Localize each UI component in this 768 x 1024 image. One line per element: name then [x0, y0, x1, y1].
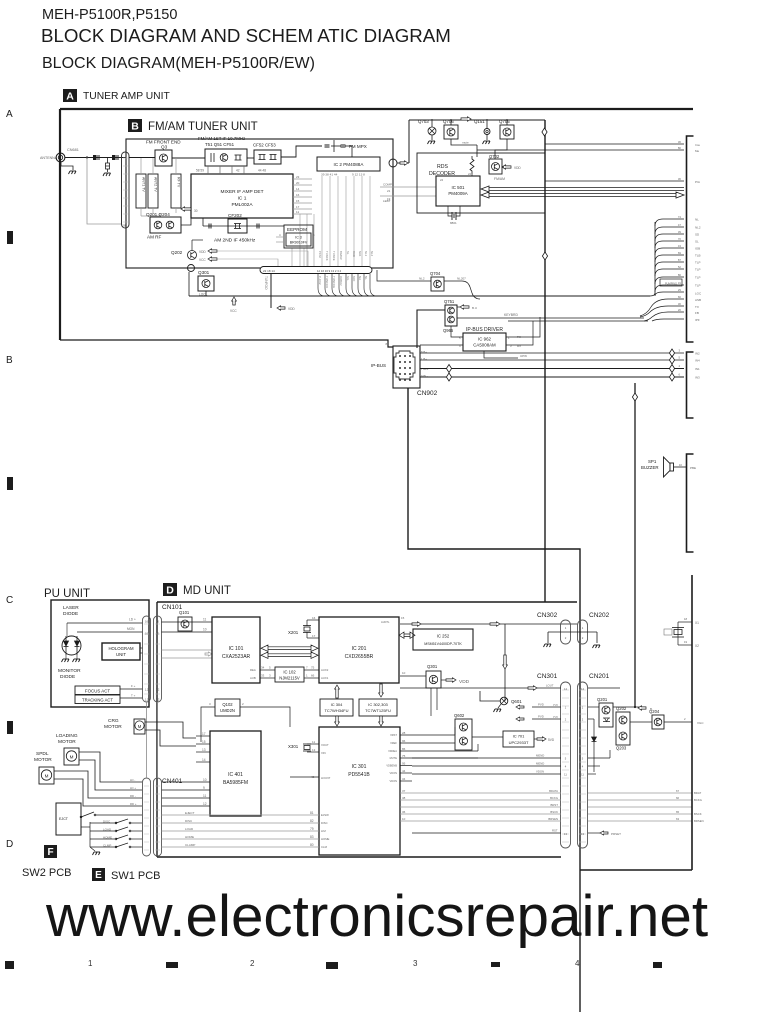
svg-text:MONITOR: MONITOR — [58, 668, 81, 674]
svg-text:IC 401: IC 401 — [228, 772, 243, 778]
svg-text:TRACKING ACT: TRACKING ACT — [82, 698, 113, 703]
tuner amp unit box bottom-left edge — [60, 340, 393, 347]
node junction antenna — [86, 156, 88, 158]
svg-text:29: 29 — [678, 288, 682, 292]
fan bundle vertical — [654, 222, 656, 295]
svg-text:96: 96 — [402, 739, 406, 743]
wire am rf to IC1 — [181, 218, 191, 225]
svg-text:TC7WH34FU: TC7WH34FU — [324, 708, 348, 713]
right bracket 2 — [687, 352, 694, 418]
svg-text:4: 4 — [459, 344, 461, 348]
svg-text:T +: T + — [131, 694, 136, 698]
svg-text:9 12 13 8: 9 12 13 8 — [352, 173, 365, 177]
svg-text:PD5541B: PD5541B — [348, 772, 370, 778]
long vertical bus wire x545 — [544, 120, 546, 602]
wire buzzer vertical x635 — [634, 383, 636, 707]
svg-text:LD -: LD - — [130, 778, 135, 782]
ip-bus line IN4 — [420, 359, 684, 361]
svg-text:66: 66 — [676, 796, 680, 800]
svg-text:SW2 PCB: SW2 PCB — [22, 867, 72, 879]
cn401 to ic301 rows — [162, 814, 320, 816]
svg-text:X201: X201 — [288, 630, 299, 635]
svg-text:65: 65 — [676, 810, 680, 814]
svg-text:39 38 41 44: 39 38 41 44 — [321, 173, 338, 177]
fan pin SD — [655, 234, 684, 241]
svg-text:Imu: Imu — [695, 143, 700, 147]
keyboard pin line TX — [457, 317, 644, 319]
svg-text:Q151: Q151 — [474, 119, 485, 124]
svg-text:FB: FB — [695, 311, 699, 315]
pin line Imu — [545, 143, 684, 145]
svg-text:11: 11 — [296, 210, 299, 214]
wire Q102 left — [201, 707, 215, 742]
svg-text:E: E — [95, 870, 102, 881]
svg-text:LDCNT: LDCNT — [321, 776, 331, 780]
svg-text:M: M — [70, 755, 74, 760]
svg-text:1,2: 1,2 — [156, 698, 160, 702]
label A box TUNER AMP UNIT — [63, 89, 77, 102]
svg-text:43: 43 — [678, 244, 682, 248]
svg-text:CN681: CN681 — [67, 148, 79, 152]
svg-text:10: 10 — [679, 463, 683, 467]
svg-text:37: 37 — [402, 789, 406, 793]
svg-text:86: 86 — [678, 273, 682, 277]
svg-text:TUNCK: TUNCK — [325, 251, 329, 261]
tuner bottom connector bar — [260, 267, 372, 274]
svg-text:11: 11 — [564, 773, 567, 777]
svg-text:B: B — [6, 355, 13, 366]
svg-text:18: 18 — [684, 617, 688, 621]
svg-text:11: 11 — [581, 773, 584, 777]
svg-text:TUNCE: TUNCE — [332, 251, 336, 261]
svg-text:1: 1 — [582, 626, 584, 630]
svg-text:IN1: IN1 — [695, 367, 700, 371]
wire Q704 left NL2 — [377, 270, 431, 281]
svg-text:3: 3 — [510, 344, 512, 348]
svg-text:NL: NL — [364, 276, 368, 280]
svg-text:13: 13 — [312, 748, 316, 752]
ic2 comp lebt wires to rds — [380, 186, 436, 188]
svg-text:3: 3 — [269, 674, 271, 678]
svg-text:SPDL: SPDL — [36, 751, 49, 757]
svg-text:36: 36 — [678, 140, 682, 144]
svg-text:4: 4 — [582, 765, 584, 769]
svg-text:www.electronicsrepair.net: www.electronicsrepair.net — [45, 884, 708, 949]
svg-text:MEND: MEND — [536, 754, 544, 758]
svg-text:IPF: IPF — [695, 318, 700, 322]
ip-bus connector CN902 box — [393, 346, 420, 388]
svg-text:87: 87 — [678, 258, 682, 262]
svg-text:IGB: IGB — [695, 247, 700, 251]
ant2 tv block — [148, 174, 158, 208]
svg-text:NA: NA — [358, 276, 362, 280]
fan pin LGC — [655, 292, 684, 296]
svg-text:CN301: CN301 — [537, 673, 558, 680]
fan pin NL — [655, 219, 684, 226]
svg-text:SIL: SIL — [346, 276, 350, 281]
md unit box top edge — [157, 601, 577, 603]
svg-text:F: F — [47, 847, 53, 858]
svg-text:PVB: PVB — [553, 704, 558, 707]
wire down to Q601 — [504, 624, 506, 701]
svg-text:Q706: Q706 — [443, 119, 454, 124]
svg-text:D: D — [6, 839, 13, 850]
svg-text:NL: NL — [695, 218, 699, 222]
rst row — [412, 832, 561, 834]
svg-text:EJCT: EJCT — [59, 817, 69, 821]
svg-text:SL: SL — [695, 240, 699, 244]
svg-text:O2BAV: O2BAV — [339, 276, 343, 286]
transistor Q301 tuner block — [198, 276, 214, 291]
svg-text:TUNFOO: TUNFOO — [264, 276, 268, 290]
svg-text:UPW: UPW — [520, 354, 527, 358]
svg-text:FM/AM TUNER UNIT: FM/AM TUNER UNIT — [148, 121, 258, 133]
svg-text:AUB: AUB — [250, 676, 256, 680]
svg-text:RF TV: RF TV — [177, 177, 181, 188]
svg-text:F +: F + — [131, 684, 136, 688]
svg-text:17: 17 — [202, 732, 206, 736]
svg-text:10: 10 — [145, 632, 148, 636]
svg-text:EJECT: EJECT — [185, 811, 195, 815]
wires IC1 area down to bus — [299, 214, 301, 266]
svg-text:VDD: VDD — [199, 250, 206, 254]
pvd rows — [532, 706, 561, 708]
svg-text:22 18 14: 22 18 14 — [263, 269, 275, 273]
svg-text:DIODE: DIODE — [60, 674, 75, 680]
svg-text:Q202: Q202 — [171, 250, 183, 255]
wire LGC long net — [189, 295, 650, 297]
svg-text:IP-BUS DRIVER: IP-BUS DRIVER — [466, 327, 503, 333]
wire antenna branch down gray — [87, 158, 122, 225]
wire LD+ — [67, 622, 143, 624]
wires hologram to cn101 — [140, 647, 143, 649]
main unit bottom edge — [580, 869, 692, 871]
svg-text:IC 101: IC 101 — [229, 646, 244, 652]
svg-text:EJSW: EJSW — [321, 813, 329, 817]
md unit box bottom edge — [157, 856, 561, 858]
wire Q202 to Q204 — [630, 721, 652, 723]
tracking act block — [75, 695, 120, 704]
svd arrow right of ic701 — [537, 737, 546, 741]
wire Q204 to right edge — [664, 721, 692, 723]
svg-text:BA5985FM: BA5985FM — [223, 780, 248, 786]
wire tracking act to cn101 — [120, 697, 143, 699]
wires antenna branch to tv blocks — [140, 158, 142, 174]
svg-text:1,2: 1,2 — [145, 698, 149, 702]
svg-text:15: 15 — [202, 740, 206, 744]
svg-text:IC 962: IC 962 — [478, 337, 491, 342]
svg-text:RD -: RD - — [130, 794, 136, 798]
wire switch commons — [89, 822, 91, 847]
svg-text:AM 2ND IF 450kHz: AM 2ND IF 450kHz — [214, 238, 256, 244]
svg-text:MUTE: MUTE — [390, 756, 398, 760]
footer tick 2 — [166, 962, 178, 968]
svg-text:5: 5 — [582, 757, 584, 761]
svg-text:FOCUS ACT: FOCUS ACT — [85, 689, 110, 694]
svg-text:LOAD: LOAD — [185, 827, 194, 831]
svg-text:14: 14 — [202, 758, 206, 762]
svg-text:HOME: HOME — [321, 837, 330, 841]
svg-text:24: 24 — [440, 178, 444, 182]
svg-text:BSCK: BSCK — [694, 812, 702, 816]
svg-text:NJM2115V: NJM2115V — [279, 676, 300, 681]
svg-text:IN2: IN2 — [695, 352, 700, 356]
svg-text:13: 13 — [202, 748, 206, 752]
fm mpx discriminator capacitors — [325, 145, 330, 147]
focus act block — [75, 686, 120, 695]
svg-text:IC 304: IC 304 — [331, 702, 344, 707]
svg-text:X1: X1 — [695, 621, 699, 625]
svg-text:DISC: DISC — [185, 819, 193, 823]
svg-text:A: A — [6, 109, 13, 120]
antenna connector CN681 — [56, 153, 65, 162]
wires cn101 to ic101 gray pair — [162, 649, 213, 651]
svg-text:66: 66 — [678, 295, 682, 299]
svg-text:30: 30 — [194, 209, 198, 213]
wire Q704 right to LGC net — [444, 281, 480, 299]
ic301 right pins upper — [400, 734, 455, 736]
svg-text:ANT1 TV: ANT1 TV — [142, 177, 146, 192]
svg-text:34: 34 — [402, 777, 406, 781]
svg-text:RX: RX — [517, 344, 521, 348]
tuner right edge feed circle — [389, 159, 397, 167]
svg-text:SL: SL — [346, 251, 350, 255]
diode rail under Q201 — [593, 719, 595, 772]
svg-text:4: 4 — [678, 364, 680, 368]
svg-text:63: 63 — [676, 817, 680, 821]
svg-text:LIM: LIM — [321, 829, 326, 833]
svg-text:2: 2 — [242, 702, 244, 706]
svg-text:12: 12 — [203, 802, 207, 806]
svg-text:CN201: CN201 — [589, 673, 610, 680]
ground under switch common — [90, 847, 95, 851]
diamond arrow 2 on x545 — [542, 252, 547, 260]
svg-text:PML002A: PML002A — [231, 202, 253, 208]
svg-text:PIA: PIA — [695, 180, 700, 184]
open arrow at tuner feed — [400, 161, 408, 165]
eeprom outer box — [284, 225, 313, 248]
svg-text:Q301: Q301 — [427, 664, 438, 669]
svg-text:3: 3 — [209, 702, 211, 706]
svg-text:6: 6 — [678, 373, 680, 377]
wire top rail y119 — [409, 119, 545, 121]
svg-text:Q705: Q705 — [499, 119, 510, 124]
svg-text:8: 8 — [385, 342, 387, 346]
svg-text:BLOCK DIAGRAM(MEH-P5100R/EW): BLOCK DIAGRAM(MEH-P5100R/EW) — [42, 55, 315, 72]
wire Q301 down to LGC row — [205, 291, 207, 296]
svg-text:34: 34 — [261, 666, 265, 670]
wire ic962 rx — [506, 321, 533, 345]
wire eeprom pins — [276, 236, 286, 238]
svg-text:28: 28 — [122, 224, 126, 228]
svg-text:REA: REA — [250, 668, 256, 672]
capacitor at am if — [257, 224, 259, 229]
transistor block Q102 UMD2N — [215, 699, 240, 716]
fan pin TLP — [655, 285, 684, 292]
ic301 PD5541B block — [319, 727, 400, 855]
wire Q751 to ic962 — [451, 326, 463, 337]
svg-text:5VD: 5VD — [548, 738, 555, 742]
open arrow on top rail — [461, 117, 471, 121]
svg-text:RD +: RD + — [130, 802, 137, 806]
svg-text:DISC: DISC — [321, 821, 328, 825]
crystal X1 X2 at right edge — [678, 621, 692, 623]
svg-text:8801: 8801 — [450, 221, 457, 225]
svg-text:Q301: Q301 — [198, 270, 210, 275]
ground under CN302 — [547, 632, 549, 643]
svg-text:8 B+: 8 B+ — [421, 350, 427, 354]
svg-text:Q703: Q703 — [418, 119, 429, 124]
svg-text:MOTOR: MOTOR — [34, 757, 52, 763]
svg-text:IC 1: IC 1 — [238, 196, 247, 202]
wire cn101 to cn401 link right — [157, 702, 159, 778]
svg-text:NA1: NA1 — [358, 251, 362, 257]
wires ic102 to ic201 — [304, 669, 319, 671]
wire y624 to cn302 — [400, 623, 577, 625]
svg-text:2: 2 — [250, 959, 255, 968]
svg-text:IC 2 PM4088A: IC 2 PM4088A — [334, 162, 365, 167]
svg-text:80: 80 — [678, 146, 682, 150]
wire mpx to IC2 — [345, 145, 352, 147]
svg-text:MON: MON — [127, 627, 135, 631]
svg-text:PVB: PVB — [553, 716, 558, 719]
fan pin TLP — [655, 277, 684, 284]
svg-text:Q204: Q204 — [649, 709, 660, 714]
laser diode symbol — [62, 636, 81, 655]
svg-text:10: 10 — [203, 778, 207, 782]
svg-text:Q601: Q601 — [511, 699, 522, 704]
wires spdl motor to cn401 — [54, 771, 142, 798]
svg-text:AUDTL: AUDTL — [381, 620, 390, 624]
svg-text:83: 83 — [310, 835, 314, 839]
svg-text:14: 14 — [564, 687, 567, 691]
svg-text:VDON: VDON — [390, 779, 398, 783]
footer tick 1 — [5, 961, 14, 969]
svg-text:14: 14 — [296, 187, 300, 191]
svg-text:47: 47 — [678, 223, 682, 227]
svg-text:5: 5 — [313, 233, 315, 237]
pin line ASB — [640, 299, 684, 316]
svg-text:B.U: B.U — [472, 306, 477, 310]
svg-text:PC62: PC62 — [318, 251, 322, 258]
wire Q601 left — [480, 691, 500, 701]
svg-text:PUMPING: PUMPING — [665, 282, 677, 286]
svg-text:RST: RST — [552, 829, 558, 833]
rail corner down to tuner feed — [408, 120, 410, 163]
svg-text:23: 23 — [296, 175, 300, 179]
svg-text:mute: mute — [462, 141, 469, 145]
svg-text:1,2: 1,2 — [145, 688, 149, 692]
svg-text:28: 28 — [402, 731, 406, 735]
rf tv block — [171, 174, 181, 208]
svg-text:1: 1 — [565, 626, 567, 630]
svg-text:LD +: LD + — [129, 618, 136, 622]
svg-text:EEPROM: EEPROM — [287, 227, 307, 232]
svg-text:1: 1 — [508, 336, 510, 340]
ip-bus connector body — [394, 351, 415, 379]
svg-text:VDON: VDON — [390, 771, 398, 775]
double line bus arrow 1 — [481, 186, 684, 192]
bu arrow at Q751 — [460, 305, 469, 309]
svg-text:X301: X301 — [288, 744, 299, 749]
svg-text:MOTOR: MOTOR — [104, 724, 122, 730]
svg-text:1: 1 — [88, 959, 93, 968]
ic401 BA5985FM block — [210, 731, 261, 816]
label D box MD UNIT — [163, 583, 177, 596]
svg-text:XOUT: XOUT — [321, 743, 329, 747]
pu unit box — [51, 600, 149, 707]
svg-text:15: 15 — [401, 616, 405, 620]
svg-text:1 B+: 1 B+ — [421, 357, 427, 361]
svg-text:BLOCK DIAGRAM AND SCHEM ATIC D: BLOCK DIAGRAM AND SCHEM ATIC DIAGRAM — [41, 25, 451, 46]
open arrows on y624 wire — [412, 622, 421, 626]
ip-bus line IN2 — [420, 352, 684, 354]
svg-text:MIXER IF AMP DET: MIXER IF AMP DET — [220, 189, 263, 195]
resistor R70x vertical — [470, 156, 474, 174]
svg-text:BDAT: BDAT — [694, 791, 702, 795]
svg-text:IC 302,303: IC 302,303 — [368, 702, 388, 707]
fan pin TLP — [655, 262, 684, 269]
ip-bus line IN3 — [420, 376, 684, 378]
ic401 left pins upper — [196, 735, 210, 737]
wire Q602 to ic701 — [472, 736, 503, 738]
vcc up arrow on LGC row — [232, 297, 237, 305]
laser diode grounds — [62, 659, 70, 662]
double arrow ic201 to ic252 — [399, 632, 415, 638]
svg-text:1: 1 — [306, 674, 308, 678]
svg-text:IN4: IN4 — [695, 359, 700, 363]
svg-text:TLP: TLP — [695, 261, 701, 265]
svg-text:10: 10 — [402, 671, 406, 675]
svg-text:36: 36 — [402, 810, 406, 814]
svg-text:Q704: Q704 — [430, 271, 441, 276]
fan pin TLP — [655, 269, 684, 276]
pin line IPF — [652, 319, 684, 321]
wire cn101 to ic101 pin 11 — [162, 621, 213, 623]
svg-text:16: 16 — [312, 616, 316, 620]
ic401 left pins lower — [162, 781, 211, 783]
eeprom IC3 BR9010FV — [286, 233, 311, 246]
if block T51 Q51 CF51 — [205, 149, 247, 166]
vertical arrow ic201-ic302 — [379, 684, 384, 697]
svg-text:17: 17 — [312, 634, 316, 638]
svg-text:44: 44 — [402, 769, 406, 773]
svg-text:ANT2 TV: ANT2 TV — [154, 177, 158, 192]
svg-text:5: 5 — [678, 356, 680, 360]
wire Q705 to Q702 — [495, 139, 507, 159]
svg-text:MEH-P5100R,P5150: MEH-P5100R,P5150 — [42, 7, 177, 23]
svg-text:LOUT: LOUT — [546, 684, 554, 688]
svg-text:Q702: Q702 — [489, 154, 500, 159]
svg-text:FM/AM: FM/AM — [494, 177, 505, 181]
svg-text:42: 42 — [236, 169, 240, 173]
ic252 block — [413, 629, 473, 650]
pin line FB — [508, 320, 648, 322]
wires IC2 bottom to bus — [321, 176, 323, 266]
tuner left feedthrough connector — [122, 152, 130, 228]
svg-text:HOLOGRAM: HOLOGRAM — [108, 646, 133, 651]
svg-text:16: 16 — [156, 620, 159, 624]
svg-text:4: 4 — [565, 765, 567, 769]
svg-text:82: 82 — [310, 819, 314, 823]
diamond arrows near CN902 — [446, 365, 451, 373]
ic201 CXD2655BR block — [319, 617, 399, 683]
fan pin NL2 — [655, 227, 684, 234]
svg-text:38: 38 — [402, 796, 406, 800]
double arrow ic101 to ic201 — [261, 645, 318, 651]
svg-text:Q201: Q201 — [597, 697, 608, 702]
svg-text:CLM: CLM — [321, 845, 328, 849]
